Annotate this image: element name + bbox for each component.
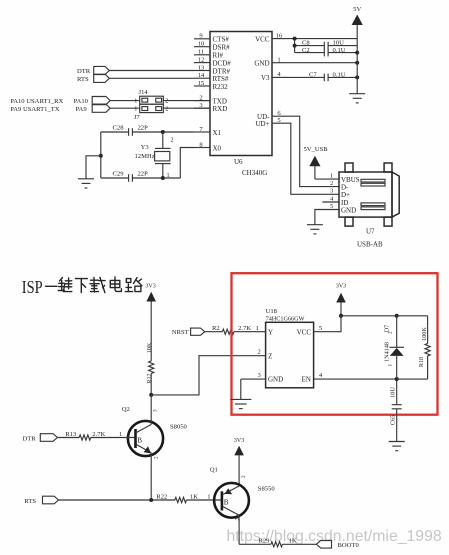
svg-text:Z: Z [268,352,272,360]
svg-text:X1: X1 [213,129,222,137]
node C8 branch [293,44,297,48]
wire VCC rail [286,38,357,40]
resistor R18 100K [418,316,430,379]
svg-text:3: 3 [330,188,333,195]
U6 pin 9 CTS# [194,33,229,44]
wire U6 X0 down [180,148,194,179]
U6 pin 11 RI# [194,49,224,60]
svg-text:Y: Y [268,328,273,336]
svg-text:U18: U18 [266,308,278,315]
port DTR (ISP) [23,434,58,443]
port RTS (top) [77,74,109,83]
svg-text:X0: X0 [213,144,222,152]
U6 pin 12 DCD# [194,56,231,67]
node R12/Q2/U18 junction [149,393,153,397]
wire RTS to U6 pin14 [109,77,194,79]
svg-text:DSR#: DSR# [213,44,231,52]
svg-text:NRST: NRST [172,329,189,336]
U6 pin 6 UD- [257,110,286,121]
svg-text:V3: V3 [261,74,270,82]
capacitor C7 0.1U [286,71,357,81]
U18 pin5 VCC wire [314,316,341,332]
svg-text:14: 14 [198,72,205,79]
port RTS (ISP) [24,496,58,505]
title char xia [76,279,88,293]
node X1/C28/crystal junction [161,130,165,134]
svg-text:10: 10 [198,41,205,48]
title char lu [125,278,142,292]
net label PA10 USART1_RX [10,97,110,106]
transistor Q2 S8050 [122,395,188,500]
svg-text:2: 2 [171,137,174,144]
wire J14 to U6 TXD [163,100,210,102]
svg-text:1: 1 [134,98,137,105]
svg-text:GND: GND [254,60,269,68]
U18 pin3 number + GND wire [241,372,266,400]
svg-text:R29: R29 [258,538,270,545]
wire Q1 collector to R29 [239,543,271,545]
U6 pin 13 DTR# [194,64,231,75]
svg-text:R12: R12 [146,373,153,383]
svg-text:1: 1 [207,493,210,500]
svg-text:VCC: VCC [297,328,312,336]
node EN / D7 / C65 [395,377,399,381]
svg-text:10K: 10K [146,342,153,353]
wire C28 to U6 X1 [132,131,194,133]
port BOOT0 [316,541,359,549]
svg-text:11: 11 [198,49,204,56]
svg-text:RTS: RTS [77,76,89,83]
wire J7 to U6 RXD [163,107,210,109]
svg-text:3V3: 3V3 [336,284,346,290]
svg-text:5V_USB: 5V_USB [304,146,329,153]
power 5V_USB [304,146,329,179]
title char jian [58,278,72,292]
svg-text:4: 4 [330,195,333,202]
resistor R2 2.7K [212,325,266,334]
ground (C65) [389,442,405,451]
wire PA9 to J7 [110,107,140,109]
svg-text:2: 2 [165,106,168,113]
svg-text:22P: 22P [138,125,149,132]
svg-text:12: 12 [198,56,205,63]
node rail / D7 [395,314,399,318]
node 3V3 rail left [339,314,343,318]
svg-text:10U: 10U [389,387,396,398]
svg-text:S8050: S8050 [170,424,188,431]
svg-text:12MHz: 12MHz [135,153,155,160]
svg-text:22P: 22P [138,171,149,178]
wire RTS to R22 [59,499,175,501]
svg-text:5: 5 [319,325,323,332]
svg-text:Y3: Y3 [141,144,150,151]
wire UD- to D- [286,116,339,186]
wire to crystal ground [86,156,101,179]
resistor R13 2.7K [57,431,135,440]
node C29/crystal junction [161,176,165,180]
U6 pin 14 RTS# [194,72,229,83]
U6 pin 15 R232 [194,80,228,91]
svg-text:15: 15 [198,80,205,87]
title char yi [46,285,58,287]
wire left bus to C28 [101,131,129,133]
ground (top right) [349,94,365,103]
U6 pin 16 VCC [255,32,286,43]
svg-text:DTR: DTR [23,435,37,442]
capacitor C28 22P [113,125,149,136]
svg-text:1: 1 [256,325,259,332]
ground (USB) [307,225,323,234]
svg-text:B: B [137,437,142,445]
svg-text:5: 5 [330,203,333,210]
connector J14 [134,89,168,104]
wire C29 to X0 drop [132,177,180,179]
svg-text:16: 16 [276,32,283,39]
wire C8/C2 branch vertical [294,39,296,53]
svg-text:1: 1 [388,364,394,367]
svg-text:PA10: PA10 [74,98,89,105]
svg-text:1: 1 [277,57,280,64]
U6 pin 10 DSR# [194,41,230,52]
U18 pin4 EN wire [314,372,428,379]
svg-text:CTS#: CTS# [213,36,230,44]
IC U6 CH340G body [210,32,272,178]
power 5V [352,6,363,39]
wire NRST to R2 [205,331,223,333]
svg-text:5V: 5V [353,6,361,13]
node Q2 emitter / RTS [149,498,153,502]
svg-text:PA9 USART1_TX: PA9 USART1_TX [10,106,60,113]
svg-text:2: 2 [258,348,261,355]
resistor R12 10K [146,342,154,395]
svg-text:GND: GND [341,206,356,214]
IC U18 74HC1G66GW body [266,308,314,388]
svg-text:PA10 USART1_RX: PA10 USART1_RX [10,98,63,105]
svg-text:R232: R232 [213,83,229,91]
svg-text:2: 2 [241,475,247,478]
capacitor C29 22P [113,171,149,182]
svg-text:J7: J7 [134,114,141,121]
capacitor C8 10U [295,40,358,50]
U6 pin 1 GND [254,57,286,68]
node VCC/C8 branch [293,37,297,41]
svg-text:R13: R13 [65,431,77,438]
U6 pin 3 RXD [194,102,227,113]
svg-text:UD+: UD+ [255,120,269,128]
U7 pin numbers [330,172,333,209]
svg-text:R18: R18 [418,357,425,367]
port NRST [172,328,205,336]
port DTR (top) [77,66,109,74]
highlight box (red) [232,273,438,415]
svg-text:3: 3 [258,372,262,379]
wire left capacitor bus [100,132,102,178]
node bus/ground junction [99,154,103,158]
node C2/bus [355,51,359,55]
svg-text:U7: U7 [366,227,375,235]
U6 pin 8 X0 [194,141,222,152]
svg-text:2: 2 [330,180,333,187]
svg-text:Q2: Q2 [122,406,130,413]
svg-text:RTS#: RTS# [213,75,229,83]
svg-text:VCC: VCC [255,35,270,43]
net label PA9 USART1_TX [10,104,110,113]
power 3V3 (R12 branch) [145,283,156,361]
svg-text:1K: 1K [190,493,198,500]
wire 3V3 top rail [341,315,428,317]
svg-text:1K: 1K [289,538,297,545]
svg-text:CH340G: CH340G [242,169,267,177]
connector J7 [134,104,169,121]
svg-text:B: B [224,499,229,507]
wire GND pin rail [286,62,357,64]
svg-text:U6: U6 [234,158,243,166]
svg-text:1: 1 [134,106,137,113]
svg-text:BOOT0: BOOT0 [338,542,360,549]
svg-text:R2: R2 [212,325,220,332]
svg-text:R22: R22 [156,493,167,500]
title char zai [90,277,105,292]
U7 pin4 ID stub [322,201,339,203]
svg-text:USB-AB: USB-AB [357,241,383,249]
svg-text:100K: 100K [421,327,428,341]
svg-text:GND: GND [268,376,283,384]
svg-text:S8550: S8550 [258,486,276,493]
wire VBUS [315,178,339,180]
svg-text:DTR: DTR [77,68,91,75]
node C7/bus [355,75,359,79]
svg-text:1: 1 [330,172,333,179]
resistor R22 1K [156,493,222,502]
U6 pin 7 X1 [194,126,222,137]
svg-text:ISP: ISP [22,277,43,297]
svg-text:2.7K: 2.7K [238,325,251,332]
power 3V3 (red box) [336,284,346,316]
svg-text:4: 4 [319,372,323,379]
power 3V3 (Q1 branch) [234,438,244,486]
wire DTR to U6 pin13 [109,70,194,72]
svg-text:DCD#: DCD# [213,59,232,67]
wire U7 GND [315,210,339,225]
svg-text:C28: C28 [113,125,125,132]
svg-text:3: 3 [153,409,159,412]
capacitor C65 10U [389,379,401,441]
title char dian [110,277,121,291]
resistor R29 1K [258,538,316,547]
U6 pin 4 V3 [261,71,286,82]
svg-text:PA9: PA9 [76,106,88,113]
wire junction to U18 pin2 [151,356,265,395]
svg-text:C65: C65 [389,415,396,425]
svg-text:3V3: 3V3 [145,283,155,289]
svg-text:D7: D7 [383,325,390,333]
svg-text:3V3: 3V3 [234,438,244,444]
svg-text:2: 2 [154,456,160,459]
svg-text:RI#: RI# [213,52,224,60]
node GND/bus [355,61,359,65]
U6 pin 5 UD+ [255,117,286,128]
capacitor C2 0.1U [295,47,358,57]
wire PA10 to J14 [110,100,140,102]
ground (U18 pin3) [230,399,251,408]
ground (crystal) [78,179,94,188]
svg-text:13: 13 [198,64,205,71]
svg-text:Q1: Q1 [210,467,218,474]
svg-text:C29: C29 [113,171,125,178]
svg-text:RTS: RTS [24,498,36,505]
wire UD+ to D+ [286,123,339,194]
wire left bus to C29 [101,177,129,179]
connector U7 USB-AB body [339,163,399,249]
diode D7 1N4148 [383,316,404,379]
crystal Y3 12MHz [135,132,174,179]
U6 pin 2 TXD [194,94,227,105]
svg-text:J14: J14 [139,89,149,96]
svg-text:EN: EN [302,376,311,384]
wire right ground bus [356,39,358,94]
svg-text:RXD: RXD [213,105,228,113]
transistor Q1 S8550 [210,467,276,545]
svg-text:1N4148: 1N4148 [383,342,390,362]
